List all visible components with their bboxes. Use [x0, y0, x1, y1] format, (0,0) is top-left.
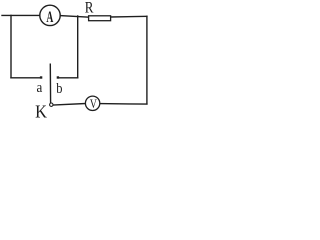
svg-text:a: a: [37, 80, 43, 96]
contact b dot: [57, 76, 59, 78]
contact a dot: [40, 76, 42, 78]
wire left vertical branch up to top wire: [10, 15, 12, 77]
wire top-left from left end to ammeter: [2, 14, 40, 16]
wire from voltmeter to switch pivot K: [53, 104, 85, 106]
ammeter A circle: [40, 5, 60, 25]
resistor R body: [89, 16, 111, 21]
wire from contact a left to left branch: [11, 77, 41, 79]
wire middle vertical branch from b up to top wire: [77, 16, 79, 78]
svg-text:R: R: [85, 0, 94, 16]
voltmeter V circle: [85, 96, 99, 110]
switch blade (open) from pivot upward: [49, 64, 51, 103]
wire from ammeter to resistor R: [60, 16, 89, 18]
wire from resistor R to top-right corner: [111, 15, 147, 18]
svg-text:K: K: [35, 102, 47, 122]
wire from contact b right to node: [59, 77, 78, 79]
wire right vertical side: [146, 16, 148, 104]
svg-text:V: V: [90, 97, 98, 111]
svg-text:A: A: [46, 9, 53, 26]
switch pivot circle K: [50, 103, 53, 106]
wire bottom from right corner to voltmeter: [100, 103, 147, 106]
svg-text:b: b: [56, 81, 62, 97]
